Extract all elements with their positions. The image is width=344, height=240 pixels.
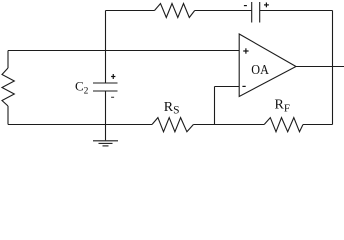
- label plus top capacitor: [264, 3, 269, 8]
- label minus top capacitor: [244, 5, 247, 7]
- ground: [93, 141, 118, 146]
- wire bottom-left segment: [8, 124, 152, 126]
- wire top middle segment: [195, 10, 252, 12]
- capacitor C2 plates: [93, 83, 118, 91]
- wire vertical through C2 upper: [105, 11, 107, 84]
- svg-text:RF: RF: [275, 97, 290, 114]
- wire top-right segment: [260, 10, 333, 12]
- wire bottom-right segment: [303, 124, 333, 126]
- op-amp OA triangle: [239, 34, 296, 97]
- wire inverting input: [215, 86, 240, 88]
- wire left vertical upper: [7, 51, 9, 69]
- svg-text:OA: OA: [251, 63, 269, 78]
- resistor top: [155, 4, 195, 18]
- capacitor top (plates): [252, 2, 260, 23]
- wire noninverting input: [8, 50, 239, 52]
- wire vertical below C2: [105, 91, 107, 140]
- wire inverting feedback vertical: [214, 87, 216, 125]
- resistor RF zigzag: [264, 118, 303, 132]
- label minus op-amp input: [242, 85, 245, 87]
- wire top-left segment: [106, 10, 155, 12]
- svg-text:C2: C2: [75, 79, 89, 97]
- label plus C2: [111, 74, 115, 79]
- wire left vertical lower: [7, 106, 9, 125]
- wire output: [296, 66, 344, 68]
- wire bottom middle segment: [193, 124, 264, 126]
- label minus C2: [111, 96, 114, 98]
- wire right vertical: [332, 11, 334, 125]
- resistor left zigzag: [2, 68, 14, 106]
- resistor RS zigzag: [152, 118, 193, 132]
- label plus op-amp input: [243, 48, 248, 53]
- svg-text:RS: RS: [164, 100, 180, 117]
